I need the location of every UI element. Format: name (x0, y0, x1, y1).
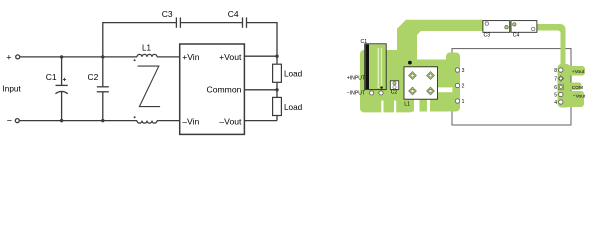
svg-text:–Vin: –Vin (182, 116, 199, 126)
node common (275, 88, 278, 91)
pin label Common (207, 84, 242, 94)
svg-text:−: − (7, 116, 12, 126)
capacitor C3 plates (176, 17, 180, 27)
label C3 (162, 9, 173, 19)
copper stub +Vout (563, 66, 585, 76)
capacitor C4 footprint (511, 21, 537, 33)
label -INPUT (347, 91, 365, 97)
pad L1-4 (427, 87, 435, 95)
choke core Z mark (138, 66, 161, 107)
capacitor C2 plates (97, 87, 109, 92)
pad L1-2 (427, 72, 435, 80)
label pin 4 (554, 100, 557, 106)
wire load R2 down (276, 116, 278, 121)
svg-text:+Vin: +Vin (182, 52, 200, 62)
pin label -Vin (182, 116, 199, 126)
label C1 (46, 72, 57, 82)
pad module pin 1 (455, 99, 459, 103)
label pin 2 (462, 83, 465, 89)
svg-text:C3: C3 (484, 33, 491, 39)
module footprint outline (452, 49, 571, 125)
node C2 top (101, 55, 104, 58)
node C2 bottom (101, 119, 104, 122)
pad module pin 4 (559, 100, 563, 104)
phase dot bottom winding (134, 116, 136, 118)
pad C4-2 (532, 27, 535, 30)
pad module pin 5 (559, 92, 563, 96)
label pin 5 (554, 92, 557, 98)
copper trace input riser and top rail (397, 20, 483, 67)
wire common pin (244, 89, 277, 91)
pad module pin 3 (455, 68, 459, 72)
label pin 8 (554, 68, 557, 74)
capacitor C1 top lead (61, 57, 63, 85)
capacitor C1 footprint (365, 44, 387, 90)
label C2 (88, 72, 99, 82)
svg-text:+Vout: +Vout (572, 69, 585, 75)
module body white fill (452, 49, 571, 125)
label C4 (228, 9, 239, 19)
svg-text:+INPUT: +INPUT (347, 76, 365, 82)
svg-text:2: 2 (462, 83, 465, 89)
pad C3-1 (485, 22, 488, 25)
wire -Vout (244, 120, 277, 122)
copper stub COM (563, 83, 582, 91)
C1 polarity dot (380, 86, 382, 88)
svg-text:C4: C4 (513, 33, 520, 39)
clearance slit below C2 (394, 101, 396, 113)
label Input (3, 84, 22, 93)
highlight streak in C1 body (378, 48, 383, 88)
svg-text:C3: C3 (162, 9, 173, 19)
label COM (572, 85, 583, 91)
node C1 top (60, 55, 63, 58)
svg-text:C1: C1 (361, 39, 368, 45)
input + terminal (16, 55, 20, 59)
converter module U1 outline (180, 44, 245, 134)
silk label C2 (391, 89, 398, 95)
svg-text:L1: L1 (404, 101, 410, 107)
svg-text:8: 8 (554, 68, 557, 74)
svg-text:−Vout: −Vout (573, 94, 586, 100)
label L1 (142, 44, 151, 53)
capacitor C4 plates (243, 17, 247, 27)
label + input (6, 52, 11, 62)
clearance slit below L1 right (427, 100, 430, 113)
wire bottom rail to -Vin (157, 120, 180, 122)
copper blob -Vout (563, 91, 584, 107)
wire bottom rail left (19, 120, 137, 122)
capacitor C3 footprint (483, 21, 510, 33)
silk label L1 (404, 101, 410, 107)
pad C1 negative (370, 91, 374, 95)
capacitor C1 bottom lead (61, 92, 63, 121)
capacitor C2 footprint (390, 81, 398, 90)
inductor L1 footprint (404, 67, 438, 99)
label +Vout (572, 69, 585, 75)
pad module pin 7 (558, 76, 564, 82)
silk label C1 (361, 39, 368, 45)
svg-text:1: 1 (462, 99, 465, 105)
clearance gap below L1 left (414, 100, 420, 113)
svg-text:6: 6 (554, 85, 557, 91)
svg-text:5: 5 (554, 92, 557, 98)
pad C1 positive (379, 91, 383, 95)
clearance slit right of L1 (438, 87, 452, 92)
label - input (7, 116, 12, 126)
svg-text:–Vout: –Vout (219, 116, 242, 126)
L1 pin1 marker dot (408, 61, 412, 65)
pad module pin 2 (455, 83, 459, 87)
pad module pin 6 (558, 84, 563, 89)
wire +Vout to node (244, 55, 277, 57)
svg-text:+: + (6, 52, 11, 62)
pad L1-1 (409, 72, 417, 80)
label -Vout (573, 94, 586, 100)
svg-text:3: 3 (462, 68, 465, 74)
svg-text:C2: C2 (88, 72, 99, 82)
svg-text:Common: Common (207, 84, 242, 94)
label pin 6 (554, 85, 557, 91)
label pin 1 (462, 99, 465, 105)
copper pour input area (360, 44, 414, 112)
copper trace module left pins (446, 53, 460, 112)
wire riser to decoupling rail (103, 23, 176, 57)
pad L1-3 (409, 87, 417, 95)
label pin 3 (462, 68, 465, 74)
inductor L1 bottom winding (137, 121, 157, 124)
wire common node to load R2 (276, 90, 278, 98)
svg-text:L1: L1 (142, 44, 151, 53)
C1 polarity plus (63, 78, 66, 81)
svg-text:4: 4 (554, 100, 557, 106)
wire node to load R1 (276, 56, 278, 64)
svg-text:COM: COM (572, 85, 583, 91)
svg-text:C4: C4 (228, 9, 239, 19)
pad C3-2 (505, 26, 508, 29)
svg-text:C2: C2 (391, 89, 398, 95)
wire between C3 and C4 (180, 22, 242, 24)
pad C4-1 (513, 23, 516, 26)
capacitor C2 top lead (102, 57, 104, 87)
wire load R1 to common node (276, 82, 278, 90)
pin label -Vout (219, 116, 242, 126)
inductor L1 top winding (137, 54, 157, 57)
svg-text:−INPUT: −INPUT (347, 91, 365, 97)
label Load 1 (284, 70, 303, 79)
resistor Load2 (273, 97, 282, 115)
svg-text:Load: Load (284, 103, 303, 112)
resistor Load1 (273, 64, 282, 82)
svg-text:Load: Load (284, 70, 303, 79)
wire top rail to +Vin (157, 56, 180, 58)
node +Vout (275, 55, 278, 58)
svg-text:+Vout: +Vout (219, 52, 242, 62)
label Load 2 (284, 103, 303, 112)
copper trace C4 to right corner (537, 24, 566, 70)
svg-text:7: 7 (554, 76, 557, 82)
capacitor C2 bottom lead (102, 92, 104, 121)
copper pour L1 area (404, 60, 451, 112)
pad module pin 8 (559, 68, 563, 72)
capacitor C1 plates (55, 85, 67, 93)
label pin 7 (554, 76, 557, 82)
silk label C4 (513, 33, 520, 39)
node C1 bottom (60, 119, 63, 122)
phase dot top winding (134, 59, 136, 61)
label +INPUT (347, 76, 365, 82)
svg-text:Input: Input (3, 84, 22, 93)
input - terminal (15, 119, 19, 123)
pin label +Vout (219, 52, 242, 62)
svg-text:C1: C1 (46, 72, 57, 82)
copper sliver C3 to C4 (505, 22, 516, 32)
pin label +Vin (182, 52, 200, 62)
copper blob right pins column (558, 64, 571, 108)
clearance slit below C1 (381, 101, 383, 113)
wire top rail left (20, 56, 137, 58)
silk label C3 (484, 33, 491, 39)
wire from C4 down to +Vout node (247, 23, 278, 57)
